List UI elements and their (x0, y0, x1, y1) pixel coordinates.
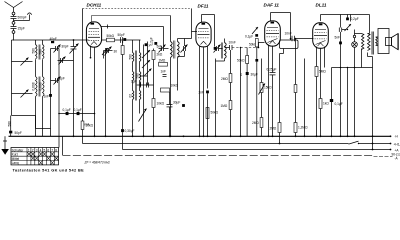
node antenna jack (12, 12, 15, 15)
wire vertical x62 (62, 136, 64, 155)
capacitor 50pF to ground (10, 116, 12, 131)
screen feed wire y66 (332, 67, 373, 69)
coil IFT1 primary (171, 42, 173, 58)
wire AVC to switch bank (59, 113, 95, 115)
coil L1a (36, 45, 38, 59)
node terminal -H (390, 135, 392, 137)
tube leads (268, 45, 270, 137)
svg-text:DAF 11: DAF 11 (264, 3, 280, 8)
wire grid line top (12, 39, 89, 41)
resistor 1M AVC (229, 101, 232, 110)
wire +H bus (83, 143, 391, 145)
svg-text:2MΩ: 2MΩ (270, 127, 277, 131)
0,1uF cap (330, 99, 333, 102)
svg-text:Tastentasten 541 GK und 542 BE: Tastentasten 541 GK und 542 BE (13, 169, 85, 173)
svg-text:10kΩ: 10kΩ (171, 84, 179, 88)
coil osc C (133, 91, 134, 100)
wire padder rail (147, 42, 149, 86)
grid connection from secondary (185, 38, 192, 40)
capacitor IFT2 blob (214, 47, 217, 50)
wire x153 (153, 49, 155, 137)
ground (4, 136, 6, 149)
cathode resistor (319, 99, 322, 109)
antenna (5, 2, 14, 8)
volume pot (260, 83, 263, 93)
node hook terminal (27, 13, 31, 15)
tone switch (342, 29, 347, 31)
osc trimmer left (104, 50, 113, 52)
svg-text:4: 4 (40, 148, 42, 152)
top cap wire (91, 23, 95, 25)
trimmer top right (252, 27, 258, 34)
cap 10nF coupling (225, 47, 230, 49)
svg-text:5: 5 (44, 148, 46, 152)
svg-text:15pF: 15pF (18, 27, 25, 31)
svg-text:1µF: 1µF (131, 80, 137, 84)
svg-text:5MΩ: 5MΩ (319, 70, 326, 74)
variable capacitor C tune (73, 40, 75, 47)
switch wave band 2 (12, 93, 33, 95)
svg-text:1,2MΩ: 1,2MΩ (298, 126, 308, 130)
svg-text:6: 6 (47, 148, 49, 152)
tube leads down (90, 46, 92, 58)
coil L2a (36, 77, 38, 97)
capacitor 0,1uF b (77, 112, 80, 115)
trimmer left (159, 48, 162, 50)
svg-text:DCH11: DCH11 (87, 3, 102, 8)
OT primary zigzag (368, 33, 370, 35)
switch wave band 1 (12, 61, 33, 63)
dashed screen line (83, 8, 192, 10)
svg-text:1nF: 1nF (44, 95, 50, 99)
coil IFT1 secondary (178, 42, 180, 58)
node terminal +H (390, 143, 392, 145)
svg-text:30: 30 (114, 50, 118, 54)
wire lowest bus (63, 154, 374, 156)
svg-text:Lang: Lang (12, 161, 19, 165)
svg-text:7: 7 (51, 148, 53, 152)
trimmer 15pF lower (51, 80, 56, 82)
svg-text:50pF: 50pF (15, 131, 22, 135)
svg-text:500pF: 500pF (18, 16, 27, 20)
svg-text:2MΩ: 2MΩ (221, 77, 228, 81)
capacitor 500pF (13, 15, 15, 17)
coil IFT2 (225, 43, 227, 59)
svg-text:+H1,2V: +H1,2V (394, 143, 400, 147)
svg-text:0,25µF: 0,25µF (267, 68, 277, 72)
resistor horizontal (161, 88, 170, 92)
anode wire to IFT1 (101, 26, 164, 28)
cap 30uF (169, 92, 171, 105)
cap at 84 (140, 83, 142, 87)
switch battery on +H line (347, 142, 359, 146)
AVC divider chain (230, 50, 232, 74)
resistor 50k vert (246, 56, 249, 64)
svg-text:1kΩ: 1kΩ (323, 102, 329, 106)
capacitor 50pF (120, 37, 122, 43)
OT secondary coil (376, 37, 378, 45)
capacitor 40pF (51, 41, 54, 43)
node jack 3 (12, 31, 15, 34)
resistor lower (304, 59, 306, 137)
svg-text:ZF = 468/473 kHz: ZF = 468/473 kHz (84, 161, 111, 165)
svg-text:15pF: 15pF (58, 77, 65, 81)
node terminal +A (390, 149, 392, 151)
svg-text:8: 8 (55, 148, 57, 152)
grid wire y39 right of tube (102, 39, 141, 41)
svg-text:0,1µF: 0,1µF (245, 35, 253, 39)
svg-text:10nF: 10nF (285, 32, 292, 36)
cap blob on x183 (182, 104, 185, 107)
grid resistor 5M (295, 39, 297, 137)
svg-text:1MΩ: 1MΩ (221, 104, 228, 108)
capacitor 0,1uF a (66, 112, 69, 115)
resistor grid upper (294, 85, 297, 93)
svg-text:580: 580 (32, 48, 36, 54)
wire +A bus (123, 149, 391, 151)
resistor 50k (107, 38, 115, 42)
tube DAF11 (265, 21, 281, 46)
svg-text:0,2µF: 0,2µF (149, 37, 153, 45)
wire bottom link (12, 115, 36, 117)
OT core (371, 32, 373, 55)
svg-text:1MΩ: 1MΩ (159, 59, 166, 63)
svg-text:0,608: 0,608 (32, 82, 36, 90)
capacitor 0,1uF on anode line (347, 15, 349, 18)
svg-text:50kΩ: 50kΩ (237, 59, 245, 63)
tube leads (316, 47, 318, 137)
coil L2b (43, 77, 45, 97)
svg-text:3-30pF: 3-30pF (59, 45, 69, 49)
trimmer right (177, 39, 179, 42)
svg-text:2nF: 2nF (199, 91, 205, 95)
top cap (319, 24, 323, 26)
wave switch arrow (139, 109, 147, 122)
capacitor blob 5nF node (154, 42, 157, 45)
svg-text:2kΩ: 2kΩ (157, 53, 163, 57)
tube DF11 (196, 22, 211, 47)
svg-text:580: 580 (8, 121, 12, 127)
svg-text:580: 580 (129, 54, 133, 60)
diode box below right (280, 40, 299, 49)
wire OT down (368, 56, 373, 58)
coil osc B (133, 72, 134, 81)
svg-text:0,30µF: 0,30µF (125, 129, 135, 133)
svg-text:30µF: 30µF (173, 101, 180, 105)
tube DCH11 (86, 22, 101, 47)
svg-text:15kΩ: 15kΩ (264, 86, 272, 90)
wire cathode branch (105, 48, 107, 136)
svg-text:50kΩ: 50kΩ (211, 111, 219, 115)
tube leads (199, 46, 201, 137)
resistor zigzag (355, 33, 362, 35)
svg-text:0,1µF: 0,1µF (335, 102, 343, 106)
wire down to bus (73, 61, 75, 137)
resistor screen dropper (206, 108, 209, 119)
svg-text:DF11: DF11 (198, 4, 209, 9)
top cap (271, 22, 275, 24)
tube DL11 (313, 23, 329, 49)
wire osc divider down (122, 55, 124, 130)
resistor below (159, 63, 168, 67)
capacitor 15pF (13, 24, 15, 26)
wire vertical x82 long (82, 9, 84, 122)
top cap (202, 23, 206, 25)
grid resistor (315, 67, 318, 77)
trimmer 3-30pF (51, 48, 56, 50)
svg-text:10nF: 10nF (229, 41, 236, 45)
osc padder trimmers (143, 45, 145, 137)
dial lamp (352, 42, 358, 48)
capacitor 1nF (49, 94, 52, 97)
coil L1b (43, 45, 45, 59)
svg-text:580: 580 (136, 73, 140, 79)
svg-text:02: 02 (129, 94, 133, 98)
svg-text:3: 3 (36, 148, 38, 152)
svg-text:0,1µF: 0,1µF (63, 108, 71, 112)
resistor 2M volume line (260, 118, 263, 128)
electro cap 30uF (246, 72, 249, 75)
variable capacitor trim 2 (58, 60, 74, 62)
svg-text:50kΩ: 50kΩ (107, 34, 115, 38)
svg-text:1: 1 (28, 148, 30, 152)
svg-text:DL11: DL11 (316, 3, 327, 8)
svg-text:0,1µF: 0,1µF (74, 108, 82, 112)
tone cap (340, 15, 342, 28)
diode line to DAF11 (258, 43, 260, 48)
wire avc vertical (240, 48, 242, 137)
svg-text:40pF: 40pF (50, 37, 57, 41)
svg-text:0,2µF: 0,2µF (351, 17, 359, 21)
resistor 30k on heater line (81, 121, 84, 130)
wire coil secondary rail (50, 49, 52, 129)
svg-text:2MΩ: 2MΩ (252, 121, 259, 125)
core lines 2 (38, 77, 40, 97)
IFT1 bottom wires (170, 58, 172, 137)
resistor vert (121, 46, 124, 55)
core lines (38, 45, 40, 60)
svg-text:5nF: 5nF (335, 36, 341, 40)
coupling cap 10nF to DL11 (291, 36, 293, 42)
cap 2nF blob (206, 91, 209, 94)
node jack 2 (12, 22, 15, 25)
svg-text:1nF: 1nF (161, 70, 167, 74)
svg-text:50pF: 50pF (118, 33, 125, 37)
coil osc A (133, 53, 134, 62)
wire right of trimmers (58, 49, 60, 148)
svg-text:580: 580 (39, 49, 43, 55)
capacitor 0,30uF (121, 129, 124, 132)
svg-text:0,608: 0,608 (39, 82, 43, 90)
wire main negative bus (9, 135, 391, 137)
svg-text:2: 2 (32, 148, 34, 152)
svg-text:10kΩ: 10kΩ (157, 102, 165, 106)
